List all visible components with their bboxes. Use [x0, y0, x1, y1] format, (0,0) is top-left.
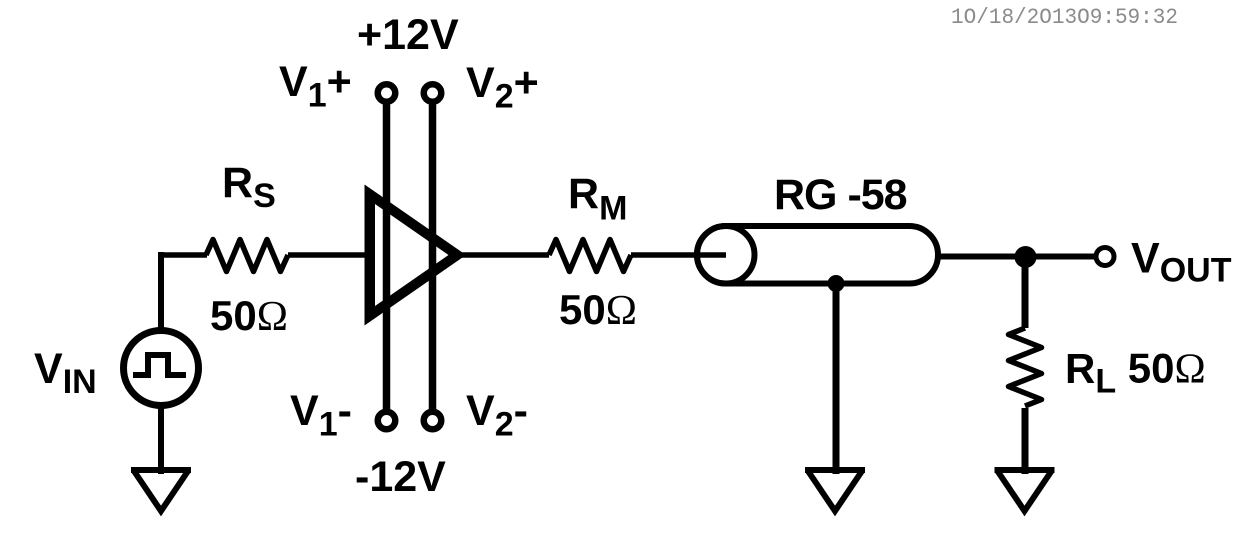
- terminal V2-: [424, 412, 442, 430]
- svg-text:1O/18/2O13O9:59:32: 1O/18/2O13O9:59:32: [951, 5, 1178, 30]
- node shield junction: [828, 275, 845, 292]
- resistor RS: [206, 240, 288, 272]
- wire amp to RM: [456, 252, 549, 258]
- terminal V1-: [378, 412, 396, 430]
- resistor RM: [549, 240, 631, 272]
- wire supply V2 vertical: [429, 103, 437, 410]
- wire node to RL: [1022, 257, 1029, 328]
- wire source to rail: [158, 252, 164, 331]
- terminal V1+: [378, 84, 396, 102]
- svg-text:+12V: +12V: [357, 11, 459, 59]
- svg-text:RG -58: RG -58: [774, 171, 907, 219]
- svg-text:50Ω: 50Ω: [559, 286, 637, 334]
- ground (coax shield): [805, 470, 865, 511]
- ground (RL): [995, 470, 1055, 511]
- coax cable RG-58 body: [697, 226, 938, 284]
- wire shield to ground: [833, 284, 840, 474]
- wire RS to amp: [288, 252, 368, 258]
- wire RL to ground: [1022, 408, 1029, 474]
- wire rail left: [158, 252, 207, 258]
- svg-text:50Ω: 50Ω: [210, 292, 288, 340]
- wire source to ground: [158, 404, 164, 474]
- terminal V2+: [424, 84, 442, 102]
- ground (VIN source): [131, 470, 191, 511]
- wire coax to output node: [939, 254, 1105, 260]
- op-amp buffer triangle: [365, 185, 467, 326]
- node output junction: [1015, 246, 1037, 268]
- resistor RL: [1009, 328, 1042, 406]
- svg-text:-12V: -12V: [355, 453, 446, 501]
- pulse source VIN: [124, 331, 199, 406]
- coax end cap: [697, 226, 755, 284]
- wire supply V1 vertical: [383, 103, 391, 410]
- wire RM to coax: [631, 252, 726, 258]
- terminal VOUT: [1096, 248, 1114, 266]
